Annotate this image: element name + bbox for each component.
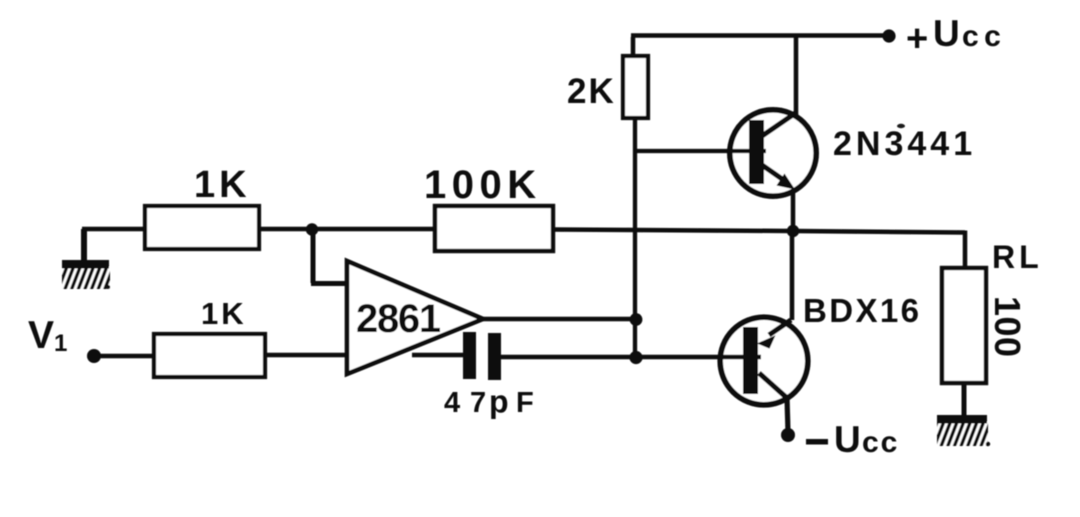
resistor R5 (RL) (942, 268, 986, 383)
svg-text:U: U (834, 419, 861, 460)
wire hypotenuse to capacitor (412, 353, 464, 358)
wire Q1 base from bus (635, 149, 766, 153)
label -Ucc (806, 419, 899, 460)
node A junction dot (306, 223, 318, 235)
GND1 hatch block (62, 267, 110, 289)
svg-text:cc: cc (862, 426, 899, 459)
wire RL to ground (962, 383, 967, 416)
C1 left plate (463, 332, 476, 379)
transistor Q1 (2N3441, NPN) (635, 35, 816, 196)
svg-text:BDX16: BDX16 (803, 292, 921, 329)
svg-text:U: U (933, 13, 960, 54)
wire V1 to R2 (94, 354, 156, 359)
svg-text:100K: 100K (424, 163, 542, 207)
Q2 base bar (743, 327, 758, 394)
Q2 body circle (720, 317, 808, 405)
terminal -Ucc dot (781, 428, 795, 442)
svg-text:1K: 1K (201, 296, 247, 331)
label +Ucc (906, 13, 1006, 60)
ground GND2 (937, 415, 990, 446)
resistor R4 (2K) (623, 56, 648, 118)
Q2 collector stroke to -Ucc (759, 373, 788, 432)
Q1 emitter stroke (762, 165, 785, 181)
svg-text:cc: cc (962, 20, 1006, 53)
svg-text:RL: RL (992, 239, 1043, 275)
wire capacitor node D to Q2 base (501, 355, 761, 360)
terminal V1 input (87, 349, 101, 363)
svg-text:+: + (906, 18, 928, 60)
wire node B to Q2 emitter (790, 231, 795, 320)
node C junction dot (op-amp output on bus) (630, 313, 643, 326)
svg-text:2861: 2861 (356, 297, 441, 341)
node D junction dot (cap / Q2 base on bus) (629, 351, 642, 364)
Q1 collector stroke (762, 112, 797, 136)
vertical bus wire 2K bottom to node D (633, 117, 637, 357)
GND1 stem wire (81, 229, 87, 262)
Q2 emitter arrowhead (PNP, points to base) (757, 335, 776, 348)
svg-text:1K: 1K (194, 164, 251, 206)
svg-text:47pF: 47pF (444, 384, 534, 420)
wire Q1 collector to +Ucc rail (794, 35, 799, 114)
node B junction dot (emitter/collector/RL bus) (787, 225, 799, 237)
wire ground to R1 (82, 227, 147, 232)
wire op-amp output to vertical bus (483, 317, 636, 322)
svg-text:2K: 2K (567, 72, 616, 111)
C1 right plate (488, 333, 501, 380)
wire R1 to node A and on to R3 (259, 227, 436, 232)
wire R3 to output bus and RL (553, 230, 965, 271)
svg-text:100: 100 (987, 296, 1028, 358)
terminal +Ucc dot (882, 29, 895, 42)
wire R2 to op-amp inverting input (265, 353, 349, 358)
transistor Q2 (BDX16, PNP) (501, 231, 808, 432)
wire node A to op-amp noninverting input (311, 229, 349, 284)
ground GND1 (62, 229, 110, 289)
resistor R3 (100K) (435, 206, 553, 251)
resistor R2 (1K lower) (154, 334, 265, 377)
Q2 emitter stroke (769, 320, 791, 335)
GND2 hatch block (937, 422, 988, 446)
Q1 base bar (749, 120, 764, 184)
Q1 body circle (730, 110, 816, 196)
op-amp U1 (2861) (347, 261, 483, 374)
capacitor C1 47pF (463, 332, 501, 380)
wire Q1 emitter to node B (791, 189, 796, 232)
Q1 emitter arrowhead (777, 174, 796, 190)
svg-text:2N3441: 2N3441 (833, 125, 976, 163)
top rail +Ucc (631, 36, 889, 59)
resistor R1 (1K upper) (145, 206, 259, 249)
scan speck above 2N3441 (897, 124, 905, 128)
